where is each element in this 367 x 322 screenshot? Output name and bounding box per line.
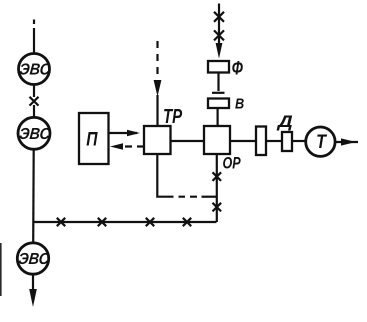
svg-text:ЭВС: ЭВС	[18, 250, 51, 268]
svg-text:В: В	[235, 96, 244, 112]
svg-text:Д: Д	[276, 112, 293, 131]
svg-text:П: П	[86, 128, 97, 150]
svg-text:Ф: Ф	[232, 58, 244, 79]
svg-text:ЭВС: ЭВС	[19, 61, 52, 79]
svg-text:ОР: ОР	[223, 155, 241, 173]
svg-text:ЭВС: ЭВС	[18, 125, 51, 143]
svg-text:Т: Т	[316, 131, 327, 153]
svg-text:ТР: ТР	[163, 105, 182, 128]
